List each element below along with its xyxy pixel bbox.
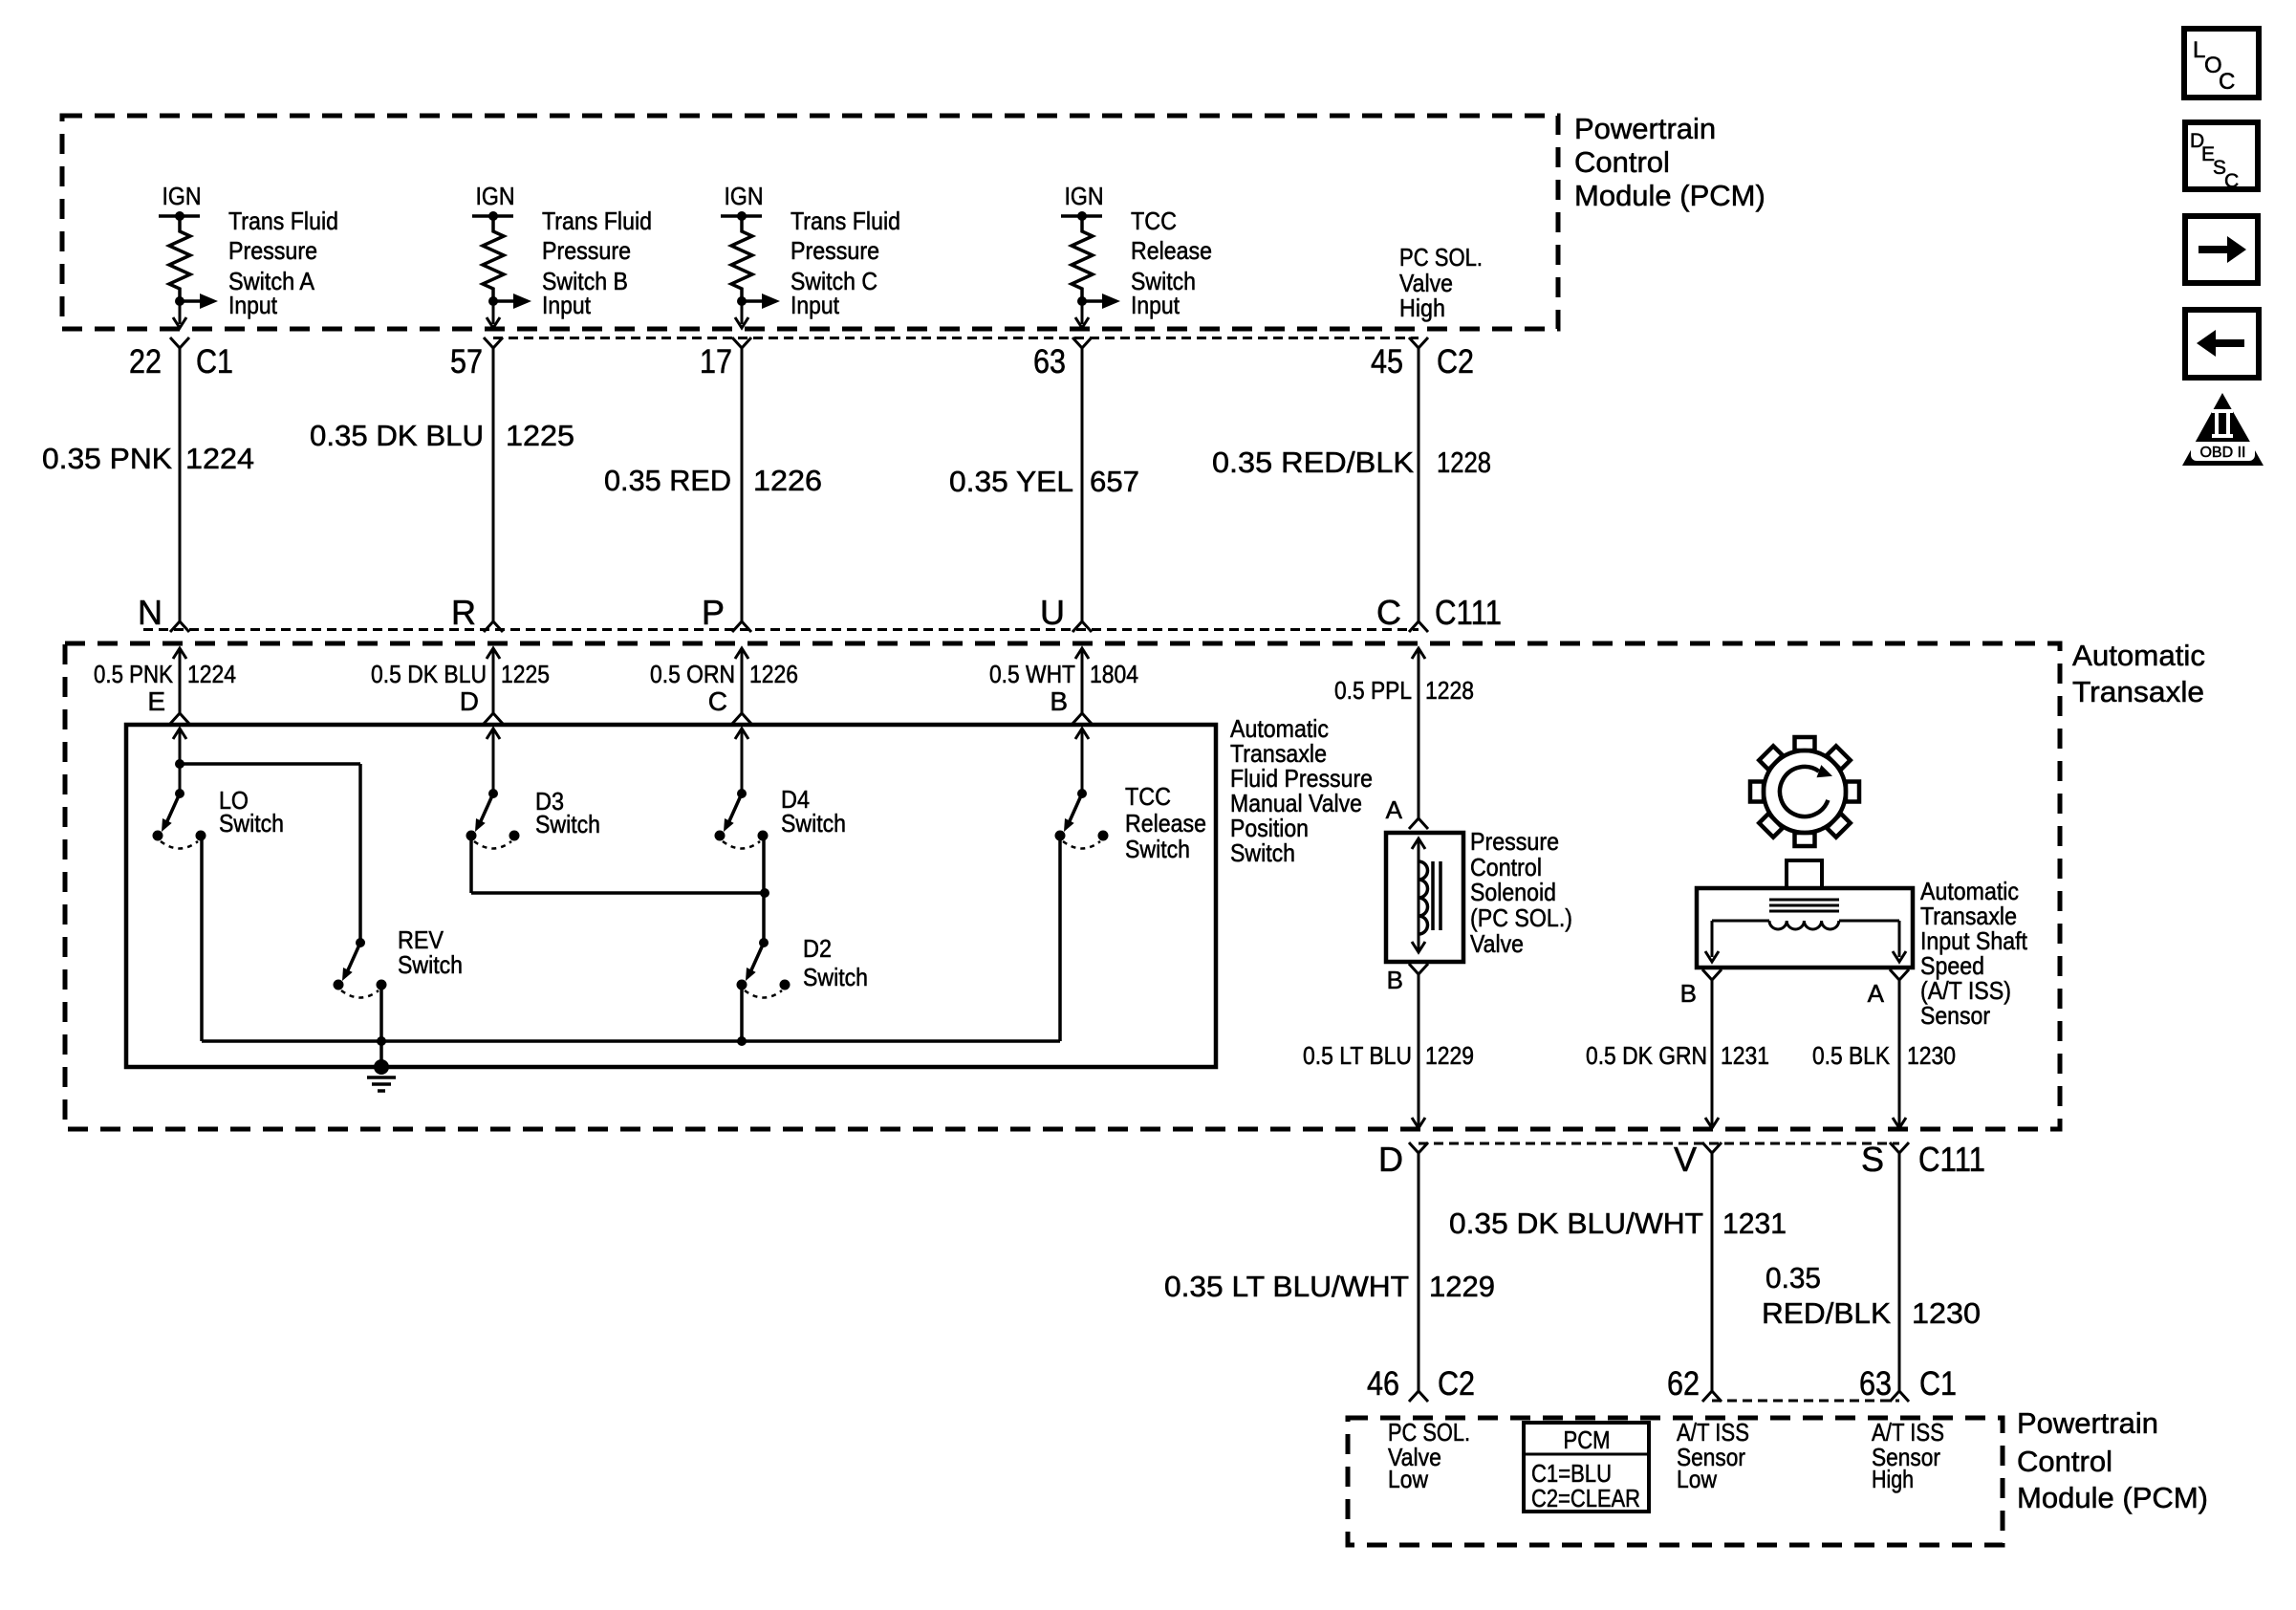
- svg-text:D: D: [460, 686, 479, 716]
- wire label 0.35 RED/BLK 1228: [1212, 446, 1491, 479]
- svg-text:E: E: [147, 686, 165, 716]
- wire label 0.5 DK GRN 1231: [1586, 1041, 1769, 1070]
- wire 0.5 LT BLU: [1412, 974, 1425, 1128]
- svg-text:0.35 RED/BLK: 0.35 RED/BLK: [1212, 446, 1414, 479]
- svg-text:Trans Fluid: Trans Fluid: [228, 207, 338, 235]
- wire label 0.35 DK BLU/WHT 1231: [1449, 1207, 1787, 1240]
- IGN supply label at x=516: [476, 182, 515, 210]
- svg-text:Input: Input: [1131, 291, 1180, 319]
- svg-text:Release: Release: [1131, 236, 1212, 265]
- wire 1484 from PCM to C111: [1418, 348, 1420, 621]
- svg-text:46: 46: [1367, 1365, 1399, 1403]
- connector fork C111 bottom pin S: [1890, 1142, 1909, 1153]
- svg-text:R: R: [451, 593, 476, 632]
- IGN tap node at x=516: [472, 211, 513, 221]
- svg-text:1231: 1231: [1721, 1041, 1769, 1070]
- wire bottom bus: [202, 1036, 1060, 1046]
- svg-text:1224: 1224: [185, 442, 254, 475]
- svg-text:1224: 1224: [187, 660, 236, 688]
- svg-text:B: B: [1387, 966, 1403, 994]
- svg-text:A: A: [1386, 795, 1403, 824]
- svg-text:0.5 DK BLU: 0.5 DK BLU: [371, 660, 487, 688]
- pin letter V (bottom): [1674, 1140, 1697, 1179]
- A/T ISS sensor box: [1697, 888, 1913, 968]
- svg-text:Powertrain: Powertrain: [2017, 1406, 2158, 1440]
- svg-text:PCM: PCM: [1564, 1425, 1611, 1454]
- wire down to connector, x=776: [735, 301, 748, 328]
- connector fork C111 bottom pin D: [1409, 1142, 1428, 1153]
- svg-text:Switch: Switch: [803, 963, 868, 991]
- wire label 0.5 ORN 1226: [650, 660, 798, 688]
- connector fork C111 pin U: [1072, 621, 1092, 632]
- svg-text:S: S: [1861, 1140, 1884, 1179]
- svg-text:RED/BLK: RED/BLK: [1762, 1296, 1891, 1330]
- connector fork below PCM at x=516: [484, 337, 503, 348]
- svg-text:Release: Release: [1125, 809, 1206, 838]
- wire 0.5 BLK: [1893, 980, 1906, 1128]
- svg-text:Control: Control: [2017, 1445, 2112, 1478]
- entry arrow into transaxle at x=1484: [1412, 648, 1425, 659]
- PCM module box (top): [62, 116, 1558, 329]
- connector C111 dashed line (bottom): [1419, 1142, 1899, 1145]
- svg-text:C: C: [1376, 593, 1401, 632]
- wire 0.5 PPL to PC solenoid: [1409, 648, 1428, 829]
- wire 776 from PCM to C111: [741, 348, 744, 621]
- wire into manual valve switch x=516: [484, 648, 503, 724]
- connector fork below PCM at x=1484: [1409, 337, 1428, 348]
- label A/T ISS Sensor High: [1872, 1418, 1944, 1493]
- junction node at (188,315): [175, 296, 184, 306]
- pin 45 label: [1371, 343, 1403, 381]
- Automatic Transaxle box: [65, 643, 2060, 1129]
- svg-text:63: 63: [1859, 1365, 1892, 1403]
- pin 62 label: [1667, 1365, 1700, 1403]
- svg-text:Input: Input: [228, 291, 278, 319]
- sensor pickup coil: [1705, 921, 1906, 962]
- label Powertrain Control Module (PCM) top: [1574, 112, 1765, 212]
- svg-text:57: 57: [450, 343, 483, 381]
- svg-text:Pressure: Pressure: [1470, 827, 1559, 856]
- label PC SOL. Valve High: [1399, 243, 1483, 322]
- entry arrow into transaxle at x=188: [173, 648, 186, 659]
- svg-text:C2=CLEAR: C2=CLEAR: [1531, 1484, 1640, 1512]
- svg-text:A: A: [1868, 979, 1885, 1008]
- svg-text:0.5 BLK: 0.5 BLK: [1812, 1041, 1891, 1070]
- svg-text:Trans Fluid: Trans Fluid: [542, 207, 652, 235]
- label C111 (top): [1435, 593, 1502, 632]
- svg-text:1228: 1228: [1437, 446, 1491, 479]
- svg-text:Solenoid: Solenoid: [1470, 878, 1556, 906]
- resistor R2 Trans Fluid Pressure Switch B pull-up: [483, 216, 504, 301]
- wire LO contact down: [200, 836, 204, 1041]
- svg-text:High: High: [1872, 1465, 1914, 1493]
- label A/T ISS Sensor Low: [1677, 1418, 1749, 1493]
- svg-text:TCC: TCC: [1131, 207, 1177, 235]
- svg-text:Switch: Switch: [398, 950, 463, 979]
- svg-text:Switch: Switch: [1125, 835, 1190, 863]
- svg-text:0.35 LT BLU/WHT: 0.35 LT BLU/WHT: [1164, 1270, 1409, 1303]
- svg-text:Switch: Switch: [781, 809, 846, 838]
- svg-text:0.5 PNK: 0.5 PNK: [94, 660, 174, 688]
- label Automatic Transaxle Input Shaft Speed (A/T ISS) Sensor: [1920, 877, 2028, 1030]
- PC solenoid valve box: [1386, 833, 1463, 962]
- wire label 0.35 LT BLU/WHT 1229: [1164, 1270, 1495, 1303]
- svg-text:0.35 RED: 0.35 RED: [604, 464, 731, 497]
- svg-text:0.35 DK BLU: 0.35 DK BLU: [310, 419, 484, 452]
- svg-text:IGN: IGN: [476, 182, 515, 210]
- entry arrow into transaxle at x=776: [735, 648, 748, 659]
- wire PCM V: [1702, 1153, 1722, 1402]
- junction node at (516,315): [488, 296, 498, 306]
- svg-text:(PC SOL.): (PC SOL.): [1470, 903, 1572, 932]
- wire into manual valve switch x=1132: [1072, 648, 1092, 724]
- svg-text:62: 62: [1667, 1365, 1700, 1403]
- IGN supply label at x=776: [725, 182, 764, 210]
- IGN tap node at x=776: [721, 211, 762, 221]
- pin letter P: [702, 593, 725, 632]
- label PC SOL. Valve Low: [1388, 1418, 1470, 1493]
- svg-text:Automatic: Automatic: [2072, 639, 2205, 672]
- label Trans Fluid Pressure Switch A Input: [228, 207, 338, 319]
- icon DESC: [2185, 122, 2258, 192]
- svg-text:B: B: [1050, 686, 1068, 716]
- wire into manual valve switch x=776: [732, 648, 751, 724]
- svg-text:1804: 1804: [1090, 660, 1138, 688]
- svg-text:P: P: [702, 593, 725, 632]
- connector C111 dashed line (top): [143, 628, 1419, 631]
- D2 switch: [737, 934, 869, 998]
- svg-text:Transaxle: Transaxle: [2072, 675, 2204, 708]
- wire 516 from PCM to C111: [492, 348, 495, 621]
- svg-text:1226: 1226: [753, 464, 822, 497]
- resistor R4 TCC Release Switch pull-up: [1072, 216, 1093, 301]
- wire label 0.5 WHT 1804: [989, 660, 1138, 688]
- label Trans Fluid Pressure Switch C Input: [791, 207, 900, 319]
- connector fork C111 pin P: [732, 621, 751, 632]
- svg-text:1228: 1228: [1425, 676, 1474, 705]
- svg-text:IGN: IGN: [725, 182, 764, 210]
- wire down to connector, x=188: [173, 301, 186, 328]
- pin letter S (bottom): [1861, 1140, 1884, 1179]
- svg-text:1230: 1230: [1907, 1041, 1956, 1070]
- svg-text:C2: C2: [1438, 1365, 1475, 1403]
- connector fork C111 pin R: [484, 621, 503, 632]
- svg-text:1231: 1231: [1722, 1207, 1787, 1240]
- pin letter D (switch assembly): [460, 686, 479, 716]
- svg-text:Valve: Valve: [1470, 929, 1524, 958]
- wire PCM D: [1409, 1153, 1428, 1402]
- svg-text:Trans Fluid: Trans Fluid: [791, 207, 900, 235]
- icon OBD II: [2182, 393, 2264, 466]
- svg-text:C1: C1: [196, 343, 233, 381]
- svg-text:Sensor: Sensor: [1920, 1001, 1990, 1030]
- pin 46 label: [1367, 1365, 1399, 1403]
- manual valve position switch box: [126, 725, 1216, 1067]
- wire label 0.5 PPL 1228: [1334, 676, 1474, 705]
- D3 switch: [466, 729, 601, 849]
- wire 0.5 DK GRN: [1705, 980, 1719, 1128]
- TCC release switch (transaxle): [1055, 729, 1207, 863]
- wire 1132 from PCM to C111: [1081, 348, 1084, 621]
- svg-text:TCC: TCC: [1125, 782, 1171, 811]
- svg-text:C: C: [708, 686, 727, 716]
- svg-text:0.35 YEL: 0.35 YEL: [949, 465, 1073, 498]
- pin 57 label: [450, 343, 483, 381]
- svg-text:0.35: 0.35: [1765, 1261, 1821, 1295]
- reluctor gear icon: [1750, 737, 1859, 846]
- svg-text:63: 63: [1033, 343, 1066, 381]
- svg-text:45: 45: [1371, 343, 1403, 381]
- svg-text:1226: 1226: [749, 660, 798, 688]
- pin letter C (switch assembly): [708, 686, 727, 716]
- svg-text:D: D: [1378, 1140, 1403, 1179]
- pin 17 label: [700, 343, 732, 381]
- wire REV contact to ground: [379, 985, 383, 1067]
- label Automatic Transaxle Fluid Pressure Manual Valve Position Switch: [1230, 714, 1373, 867]
- connector fork C111 bottom pin V: [1702, 1142, 1722, 1153]
- LO branch junction: [175, 759, 360, 943]
- connector fork C111 pin C: [1409, 621, 1428, 632]
- resistor R3 Trans Fluid Pressure Switch C pull-up: [731, 216, 752, 301]
- connector fork C111 pin N: [170, 621, 189, 632]
- svg-text:Low: Low: [1388, 1465, 1428, 1493]
- svg-text:IGN: IGN: [1065, 182, 1104, 210]
- svg-text:1229: 1229: [1425, 1041, 1474, 1070]
- pin A label (PC SOL): [1386, 795, 1403, 824]
- IGN supply label at x=1132: [1065, 182, 1104, 210]
- svg-text:Module (PCM): Module (PCM): [1574, 179, 1765, 212]
- svg-text:C111: C111: [1918, 1140, 1985, 1179]
- connector fork below PCM at x=776: [732, 337, 751, 348]
- svg-text:Pressure: Pressure: [791, 236, 879, 265]
- pin C2 label (top): [1437, 343, 1474, 381]
- svg-text:Control: Control: [1574, 145, 1670, 179]
- pin 22 label: [129, 343, 162, 381]
- svg-text:17: 17: [700, 343, 732, 381]
- icon LOC: [2184, 29, 2259, 98]
- svg-text:V: V: [1674, 1140, 1697, 1179]
- input arrow (to PCM) at x=516: [493, 294, 531, 309]
- REV switch: [334, 925, 464, 998]
- pin letter E (switch assembly): [147, 686, 165, 716]
- connector C1/C2 dashed line (top): [493, 337, 1419, 339]
- svg-text:Pressure: Pressure: [542, 236, 631, 265]
- pin letter C: [1376, 593, 1401, 632]
- svg-text:Pressure: Pressure: [228, 236, 317, 265]
- PCM connector legend box: [1524, 1423, 1649, 1512]
- svg-text:B: B: [1680, 979, 1697, 1008]
- svg-text:D2: D2: [803, 934, 832, 963]
- svg-text:C2: C2: [1437, 343, 1474, 381]
- wire label 0.5 PNK 1224: [94, 660, 236, 688]
- svg-text:Input: Input: [542, 291, 592, 319]
- svg-text:High: High: [1399, 294, 1445, 322]
- pin letter N: [138, 593, 162, 632]
- connector fork below PCM at x=1132: [1072, 337, 1092, 348]
- wire label 0.35 PNK 1224: [42, 442, 254, 475]
- wire label 0.5 BLK 1230: [1812, 1041, 1956, 1070]
- D4 switch: [715, 729, 847, 849]
- svg-text:N: N: [138, 593, 162, 632]
- svg-text:0.5 WHT: 0.5 WHT: [989, 660, 1075, 688]
- wire TCC contact down: [1058, 835, 1062, 1041]
- svg-text:22: 22: [129, 343, 162, 381]
- IGN tap node at x=1132: [1061, 211, 1102, 221]
- wire label 0.35 RED/BLK 1230: [1762, 1261, 1981, 1330]
- wire 188 from PCM to C111: [179, 348, 182, 621]
- LO switch: [153, 729, 285, 849]
- pin letter U: [1040, 593, 1065, 632]
- label C111 (bottom): [1918, 1140, 1985, 1179]
- entry arrow into transaxle at x=516: [487, 648, 500, 659]
- svg-text:657: 657: [1090, 465, 1139, 498]
- icon arrow left: [2185, 310, 2259, 378]
- wire label 0.35 DK BLU 1225: [310, 419, 574, 452]
- input arrow (to PCM) at x=1132: [1082, 294, 1120, 309]
- svg-text:PC SOL.: PC SOL.: [1399, 243, 1483, 272]
- sensor core laminations: [1769, 900, 1839, 911]
- svg-text:0.5 LT BLU: 0.5 LT BLU: [1303, 1041, 1412, 1070]
- svg-text:1230: 1230: [1912, 1296, 1981, 1330]
- resistor R1 Trans Fluid Pressure Switch A pull-up: [169, 216, 190, 301]
- pin B fork (ISS): [1680, 969, 1722, 1008]
- svg-text:C1: C1: [1919, 1365, 1957, 1403]
- svg-text:Switch: Switch: [535, 810, 600, 838]
- svg-text:OBD II: OBD II: [2199, 445, 2245, 461]
- sensor nub: [1787, 860, 1822, 888]
- svg-text:0.5 ORN: 0.5 ORN: [650, 660, 735, 688]
- wire into manual valve switch x=188: [170, 648, 189, 724]
- svg-text:1225: 1225: [506, 419, 574, 452]
- icon arrow right: [2185, 216, 2258, 283]
- svg-text:Powertrain: Powertrain: [1574, 112, 1716, 145]
- svg-text:Module (PCM): Module (PCM): [2017, 1481, 2208, 1514]
- svg-text:1225: 1225: [501, 660, 550, 688]
- IGN tap node at x=188: [159, 211, 200, 221]
- pin letter R: [451, 593, 476, 632]
- wire label 0.5 LT BLU 1229: [1303, 1041, 1474, 1070]
- pin C1 label (top): [196, 343, 233, 381]
- junction node at (1132,315): [1077, 296, 1087, 306]
- wire D2 contact down: [740, 986, 744, 1041]
- pin 63 label (bottom): [1859, 1365, 1892, 1403]
- junction node at (776,315): [737, 296, 747, 306]
- PC solenoid internals: [1412, 838, 1440, 952]
- connector fork below PCM at x=188: [170, 337, 189, 348]
- svg-text:1229: 1229: [1429, 1270, 1495, 1303]
- connector C1 dashed line (bottom): [1712, 1400, 1899, 1403]
- wire D4 contact down to D2: [762, 835, 766, 943]
- wire PCM S: [1890, 1153, 1909, 1402]
- svg-text:U: U: [1040, 593, 1065, 632]
- wire D3 contact to D4 chain: [471, 836, 769, 898]
- PCM module box (bottom): [1348, 1418, 2003, 1545]
- label Trans Fluid Pressure Switch B Input: [542, 207, 652, 319]
- entry arrow into transaxle at x=1132: [1075, 648, 1089, 659]
- svg-text:Input: Input: [791, 291, 840, 319]
- pin 63 label (top): [1033, 343, 1066, 381]
- wire down to connector, x=516: [487, 301, 500, 328]
- svg-text:IGN: IGN: [162, 182, 202, 210]
- wire label 0.5 DK BLU 1225: [371, 660, 550, 688]
- svg-text:C: C: [2224, 170, 2239, 192]
- pin A fork (ISS): [1868, 969, 1909, 1008]
- svg-text:Switch: Switch: [1230, 838, 1295, 867]
- label Pressure Control Solenoid (PC SOL.) Valve: [1470, 827, 1572, 958]
- pin C1 label (bottom): [1919, 1365, 1957, 1403]
- pin C2 label (bottom): [1438, 1365, 1475, 1403]
- label Automatic Transaxle: [2072, 639, 2205, 708]
- pin letter B (switch assembly): [1050, 686, 1068, 716]
- wire down to connector, x=1132: [1075, 301, 1089, 328]
- input arrow (to PCM) at x=188: [180, 294, 218, 309]
- svg-text:C111: C111: [1435, 593, 1502, 632]
- pin letter D (bottom): [1378, 1140, 1403, 1179]
- svg-text:0.35 PNK: 0.35 PNK: [42, 442, 172, 475]
- IGN supply label at x=188: [162, 182, 202, 210]
- label Powertrain Control Module (PCM) bottom: [2017, 1406, 2208, 1514]
- svg-text:Switch: Switch: [219, 809, 284, 838]
- wire label 0.35 RED 1226: [604, 464, 822, 497]
- pin B fork (PC SOL): [1387, 964, 1428, 994]
- svg-text:0.35 DK BLU/WHT: 0.35 DK BLU/WHT: [1449, 1207, 1703, 1240]
- wire label 0.35 YEL 657: [949, 465, 1139, 498]
- svg-text:0.5 DK GRN: 0.5 DK GRN: [1586, 1041, 1707, 1070]
- svg-text:C: C: [2219, 69, 2235, 95]
- label TCC Release Switch Input: [1131, 207, 1212, 319]
- ground symbol: [367, 1059, 396, 1091]
- svg-text:0.5 PPL: 0.5 PPL: [1334, 676, 1412, 705]
- input arrow (to PCM) at x=776: [742, 294, 780, 309]
- svg-text:Low: Low: [1677, 1465, 1717, 1493]
